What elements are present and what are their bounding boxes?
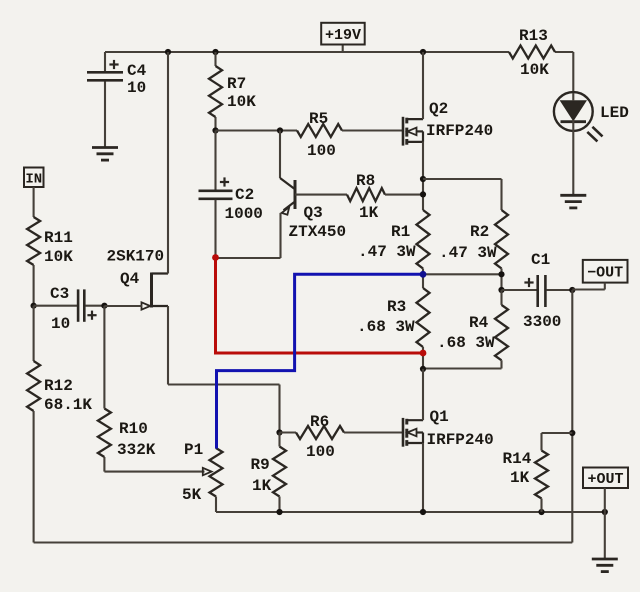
resistor R2	[495, 210, 508, 269]
capacitor C2 plus sign	[220, 177, 229, 186]
capacitor C2 bottom lead	[214, 200, 216, 258]
svg-text:.68 3W: .68 3W	[437, 334, 495, 352]
svg-text:C2: C2	[235, 186, 254, 204]
resistor R10 top lead	[103, 306, 105, 409]
wire Q2 drain to rail	[422, 52, 424, 119]
label C3	[50, 285, 69, 303]
transistor Q3 collector	[280, 131, 295, 190]
svg-text:C1: C1	[531, 251, 550, 269]
label R8	[356, 172, 375, 190]
node Q2 source / R2 branch	[420, 176, 426, 182]
svg-text:10: 10	[51, 315, 70, 333]
svg-text:R10: R10	[119, 420, 148, 438]
label C2	[235, 186, 254, 204]
label R4	[469, 314, 489, 332]
label C4 value 10	[127, 79, 146, 97]
svg-text:R7: R7	[227, 75, 246, 93]
capacitor C3 plus sign	[87, 311, 96, 320]
label R14 value 1K	[510, 469, 530, 487]
wire R5 to Q2 gate	[342, 129, 404, 131]
wire IN to R11	[33, 187, 35, 217]
potentiometer P1 bottom lead	[215, 497, 217, 513]
label R11 value 10K	[44, 248, 73, 266]
svg-text:P1: P1	[184, 441, 203, 459]
resistor R5	[297, 124, 342, 137]
svg-text:R13: R13	[519, 27, 548, 45]
wire top +19V rail	[105, 51, 573, 53]
capacitor C3	[78, 289, 84, 321]
label Q4 type 2SK170	[107, 248, 165, 266]
resistor R4	[495, 305, 508, 360]
label P1	[184, 441, 203, 459]
wire Q2 source down	[422, 142, 424, 210]
svg-text:R14: R14	[503, 450, 532, 468]
wire Q4 source down	[168, 306, 280, 433]
potentiometer P1	[210, 448, 223, 497]
node Q2 source / R8 junction	[420, 191, 426, 197]
svg-text:R1: R1	[391, 223, 410, 241]
wire R7 junction to R5	[216, 129, 298, 131]
resistor R11 bottom lead	[33, 265, 35, 306]
capacitor C1	[538, 275, 546, 307]
wire R2 bottom to R4 top	[500, 274, 502, 290]
label R2 value .47 3W	[439, 244, 497, 262]
wire R2 branch	[423, 179, 502, 210]
svg-text:Q4: Q4	[120, 270, 140, 288]
wire +OUT to ground	[604, 512, 606, 559]
svg-text:R9: R9	[251, 456, 270, 474]
resistor R4 bottom lead	[500, 360, 502, 368]
label Q4	[120, 270, 140, 288]
label C3 value 10	[51, 315, 70, 333]
svg-text:10K: 10K	[520, 61, 549, 79]
output label -OUT	[583, 260, 628, 283]
capacitor C1 right lead	[546, 289, 572, 291]
output label +OUT	[583, 468, 628, 489]
wire blue highlight net	[217, 274, 424, 448]
node +OUT rail junction	[602, 509, 608, 515]
label R9 value 1K	[252, 477, 272, 495]
svg-text:Q2: Q2	[429, 100, 448, 118]
node top rail / Q4 drain junction	[165, 49, 171, 55]
capacitor C2 top lead	[214, 131, 216, 190]
potentiometer P1 wiper arrow	[203, 468, 212, 475]
capacitor C3 left lead	[34, 305, 78, 307]
label R7	[227, 75, 246, 93]
label R8 value 1K	[359, 204, 379, 222]
svg-text:100: 100	[307, 142, 336, 160]
resistor R6	[296, 426, 344, 439]
resistor R1	[417, 210, 430, 269]
svg-text:10K: 10K	[44, 248, 73, 266]
label C2 value 1000	[225, 205, 263, 223]
svg-text:IRFP240: IRFP240	[426, 122, 493, 140]
label Q3	[304, 204, 323, 222]
label R1 value .47 3W	[358, 243, 416, 261]
node R11/C3/R12 junction	[30, 303, 36, 309]
wire +OUT stem	[604, 488, 606, 512]
ground below C4	[92, 148, 118, 161]
svg-text:R5: R5	[309, 110, 328, 128]
resistor R7	[209, 66, 222, 117]
svg-text:IRFP240: IRFP240	[427, 431, 494, 449]
resistor R9	[273, 447, 286, 497]
wire R6 to Q1 gate	[344, 431, 404, 433]
svg-text:2SK170: 2SK170	[107, 248, 165, 266]
svg-text:.47 3W: .47 3W	[439, 244, 497, 262]
label R5	[309, 110, 328, 128]
resistor R3 top lead	[422, 274, 424, 288]
label Q2 type IRFP240	[426, 122, 493, 140]
capacitor C4 plus sign	[109, 60, 118, 69]
node top rail / Q2 drain junction	[420, 49, 426, 55]
svg-text:.47 3W: .47 3W	[358, 243, 416, 261]
power label +19V	[321, 23, 365, 45]
svg-text:1000: 1000	[225, 205, 263, 223]
wire -OUT stem	[572, 283, 605, 290]
label R12 value 68.1K	[44, 396, 92, 414]
label R2	[470, 223, 489, 241]
svg-text:ZTX450: ZTX450	[289, 223, 347, 241]
resistor R13	[509, 46, 555, 59]
label R3	[387, 298, 406, 316]
label R3 value .68 3W	[357, 318, 415, 336]
svg-text:IN: IN	[25, 171, 42, 187]
resistor R1 bottom lead	[422, 269, 424, 275]
node Q1 source rail junction	[420, 509, 426, 515]
capacitor C1 left lead	[502, 289, 537, 291]
node R2/mid junction	[498, 271, 504, 277]
resistor R10	[98, 409, 111, 458]
resistor R12 top lead	[33, 306, 35, 361]
label C4	[127, 62, 147, 80]
node C3/Q4 gate/R10 junction	[101, 303, 107, 309]
label R7 value 10K	[227, 93, 256, 111]
wire Q4 drain to top rail	[167, 52, 169, 274]
svg-text:R8: R8	[356, 172, 375, 190]
svg-text:1K: 1K	[510, 469, 530, 487]
svg-text:1K: 1K	[359, 204, 379, 222]
resistor R4 top lead	[500, 290, 502, 305]
label R6 value 100	[306, 443, 335, 461]
input label IN	[24, 168, 44, 188]
transistor Q4 (2SK170 JFET)	[104, 273, 168, 310]
wire bottom return line	[34, 541, 573, 543]
svg-text:C4: C4	[127, 62, 147, 80]
label R13	[519, 27, 548, 45]
label P1 value 5K	[182, 486, 202, 504]
resistor R11	[27, 217, 40, 265]
node Q3 collector tap	[277, 127, 283, 133]
node blue R1/R3 junction	[420, 271, 427, 278]
svg-text:R12: R12	[44, 377, 73, 395]
svg-text:R6: R6	[310, 413, 329, 431]
label R10 value 332K	[117, 441, 156, 459]
node top rail / R7 junction	[212, 49, 218, 55]
label R1	[391, 223, 410, 241]
wire R13 to LED	[572, 52, 574, 93]
svg-text:1K: 1K	[252, 477, 272, 495]
svg-text:+19V: +19V	[325, 27, 361, 44]
wire Q1 source down	[422, 443, 424, 512]
node R3/R4/Q1 drain junction	[420, 366, 426, 372]
node C1 / -OUT junction	[569, 287, 575, 293]
node red R3 junction	[420, 350, 427, 357]
node R4/C1 junction	[498, 287, 504, 293]
capacitor C3 right lead	[85, 305, 104, 307]
label R13 value 10K	[520, 61, 549, 79]
svg-text:100: 100	[306, 443, 335, 461]
transistor Q3 base lead	[295, 194, 347, 196]
svg-text:C3: C3	[50, 285, 69, 303]
svg-text:R2: R2	[470, 223, 489, 241]
svg-text:Q3: Q3	[304, 204, 323, 222]
resistor R8	[347, 188, 385, 201]
transistor Q3 emitter	[281, 202, 296, 259]
transistor Q1 (IRFP240 MOSFET)	[403, 418, 423, 447]
label R12	[44, 377, 73, 395]
resistor R3	[417, 288, 430, 347]
svg-text:10K: 10K	[227, 93, 256, 111]
label R4 value .68 3W	[437, 334, 495, 352]
svg-text:Q1: Q1	[430, 408, 449, 426]
wire R8 to Q2 source rail	[385, 194, 423, 196]
resistor R3 bottom lead	[422, 347, 424, 369]
capacitor C1 plus sign	[524, 278, 533, 287]
resistor R14 bottom lead	[540, 499, 542, 513]
svg-text:LED: LED	[600, 104, 629, 122]
label R10	[119, 420, 148, 438]
svg-text:5K: 5K	[182, 486, 202, 504]
label R9	[251, 456, 270, 474]
label LED	[600, 104, 629, 122]
label R11	[44, 229, 73, 247]
svg-text:R3: R3	[387, 298, 406, 316]
label Q1	[430, 408, 449, 426]
wire R1 bottom to R2 bottom	[423, 273, 502, 275]
svg-text:68.1K: 68.1K	[44, 396, 92, 414]
resistor R14	[535, 451, 548, 499]
svg-text:R4: R4	[469, 314, 489, 332]
resistor R12 bottom lead	[33, 411, 35, 543]
wire bottom output rail	[216, 511, 605, 513]
label Q3 type ZTX450	[289, 223, 347, 241]
wire Q1 drain up	[422, 369, 424, 420]
ground below LED	[560, 195, 586, 208]
capacitor C2	[199, 191, 233, 199]
wire R4 bottom to R3 bottom	[423, 367, 502, 369]
LED D1	[554, 92, 603, 141]
svg-text:−OUT: −OUT	[587, 264, 623, 281]
wire +19V stem	[342, 44, 344, 52]
resistor R10 bottom lead	[104, 457, 204, 472]
label Q2	[429, 100, 448, 118]
ground below +OUT	[592, 559, 618, 572]
label R6	[310, 413, 329, 431]
wire Q3 emitter to C2 node	[216, 257, 281, 259]
resistor R9 bottom lead	[278, 497, 280, 513]
node red C2 junction	[212, 254, 219, 261]
label C1 value 3300	[523, 313, 561, 331]
capacitor C4	[87, 72, 123, 80]
label Q1 type IRFP240	[427, 431, 494, 449]
svg-text:+OUT: +OUT	[587, 471, 623, 488]
svg-text:R11: R11	[44, 229, 73, 247]
transistor Q3 base bar	[294, 180, 297, 209]
label C1	[531, 251, 550, 269]
svg-text:.68 3W: .68 3W	[357, 318, 415, 336]
LED cathode lead	[572, 131, 574, 196]
label R14	[503, 450, 532, 468]
capacitor C4 bottom lead	[104, 82, 106, 148]
capacitor C4 top lead	[104, 52, 106, 71]
resistor R7 leads	[214, 52, 216, 131]
node R6/R9/Q1 gate junction	[276, 429, 282, 435]
svg-text:3300: 3300	[523, 313, 561, 331]
wire -OUT node down right side	[571, 290, 573, 543]
wire red highlight net	[216, 258, 424, 354]
wire R14 top	[542, 433, 573, 451]
node P1/R9 rail junction	[276, 509, 282, 515]
svg-text:332K: 332K	[117, 441, 156, 459]
resistor R12	[27, 361, 40, 411]
transistor Q2 (IRFP240 MOSFET)	[403, 117, 423, 146]
label R5 value 100	[307, 142, 336, 160]
resistor R9 top lead	[278, 433, 280, 447]
resistor R6 left lead	[280, 431, 297, 433]
node R14 top junction	[569, 430, 575, 436]
svg-text:10: 10	[127, 79, 146, 97]
node R7/R5/C2 junction	[212, 127, 218, 133]
node R14 rail junction	[538, 509, 544, 515]
resistor R2 bottom lead	[500, 269, 502, 275]
